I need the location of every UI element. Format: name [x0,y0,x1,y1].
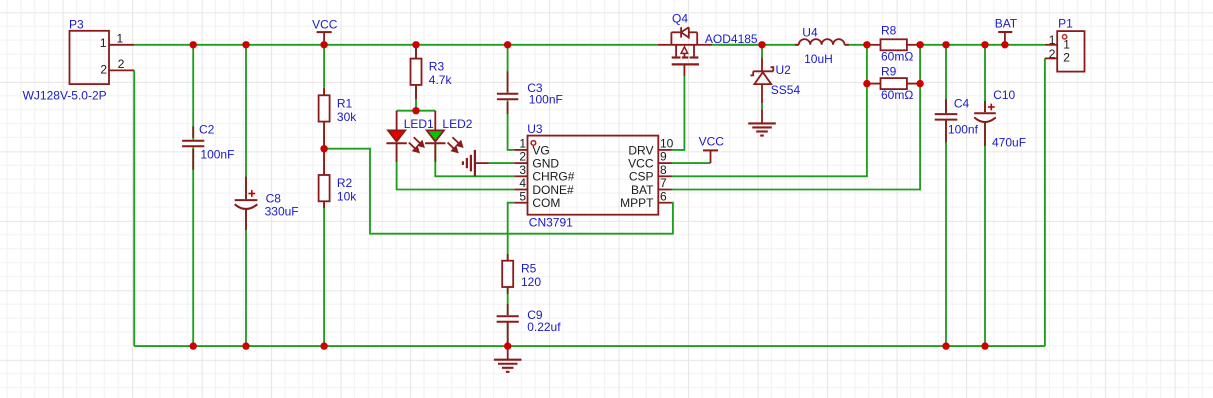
capacitor C8 (polarized) [235,177,299,230]
svg-text:GND: GND [532,157,559,171]
junction dot R3/LED node [412,107,419,114]
resistor R8 [867,24,920,64]
svg-text:LED2: LED2 [442,117,472,131]
wire P3 pin2 drop to bottom bus [133,70,135,346]
svg-text:1: 1 [117,32,124,46]
svg-text:C4: C4 [954,97,970,111]
wire Q4 drain to U2/U4 node [712,44,762,46]
svg-text:9: 9 [660,150,667,164]
svg-text:3: 3 [519,163,526,177]
svg-text:R3: R3 [429,60,445,74]
wire U3 pin 8 CSP to R8/R9 left node [672,45,867,177]
inductor U4 [795,26,849,66]
wire U3 pin 7 BAT to R8/R9 right node [672,45,920,190]
svg-text:C8: C8 [266,192,282,206]
junction dot R1/R2 node [320,145,327,152]
svg-text:VCC: VCC [628,157,654,171]
svg-text:0.22uf: 0.22uf [527,320,561,334]
wire MPPT feedback from R1/R2 node to U3 pin 6 [324,149,673,234]
Q4 arrow [681,47,688,54]
junction dots R9 row [863,80,870,87]
capacitor C9 [497,304,562,346]
capacitor C10 (polarized) [974,88,1026,150]
Q4 body diode [680,27,682,37]
svg-text:1: 1 [1049,33,1056,47]
svg-text:CSP: CSP [629,170,654,184]
resistor R5 [502,254,541,294]
svg-text:U3: U3 [527,122,543,136]
LED LED1 anode lead [396,111,398,131]
svg-text:8: 8 [660,163,667,177]
svg-text:60mΩ: 60mΩ [881,88,913,102]
svg-text:AOD4185: AOD4185 [705,32,758,46]
wire C4 branch [945,45,947,346]
wire U3 pin 5 COM to R5/C9 chain [508,203,515,346]
svg-text:BAT: BAT [995,17,1018,31]
VCC flag at U3 pin 9 [699,135,725,163]
capacitor C3 [497,71,563,114]
wire LED2 cathode to U3 pin 3 CHRG# [435,143,514,176]
svg-text:2: 2 [118,57,125,71]
svg-text:SS54: SS54 [771,83,801,97]
BAT flag [995,17,1018,45]
svg-text:C10: C10 [993,88,1015,102]
wire U3 pin 9 to VCC flag [672,162,711,164]
connector P3 [23,17,135,102]
wire C3 branch / U3 pin 1 VG [508,45,515,150]
svg-text:4.7k: 4.7k [429,73,453,87]
LED LED2 emission arrows [452,137,458,143]
wire R8 right node to P1 [920,44,1045,46]
resistor R3 [411,48,453,99]
svg-text:330uF: 330uF [265,205,299,219]
LED LED1 (red) [388,130,405,141]
svg-text:U4: U4 [802,26,818,40]
junction dots bottom bus [190,342,197,349]
ground flag (rotated) at U3 GND pin [463,150,489,176]
connector P1 [1045,17,1085,72]
svg-text:WJ128V-5.0-2P: WJ128V-5.0-2P [23,89,107,103]
svg-text:U2: U2 [776,63,792,77]
svg-text:10uH: 10uH [804,52,833,66]
wire top bus right section (Q4 drain to inductor) [719,44,799,46]
wire C10 branch [984,45,986,346]
svg-text:R8: R8 [881,24,897,38]
svg-text:4: 4 [519,176,526,190]
svg-text:DONE#: DONE# [532,183,574,197]
resistor R2 [319,149,358,208]
wire C2 branch [192,45,194,346]
svg-text:470uF: 470uF [992,136,1026,150]
svg-text:BAT: BAT [631,183,654,197]
svg-text:R9: R9 [881,65,897,79]
wire R1-R2 branch [323,45,325,346]
capacitor C4 [935,97,979,143]
wire ground flag to U3 pin 2 GND [489,162,515,164]
svg-text:1: 1 [519,137,526,151]
svg-text:100nf: 100nf [948,123,979,137]
junction dots top bus [190,41,197,48]
svg-text:Q4: Q4 [672,11,688,25]
svg-text:5: 5 [519,189,526,203]
LED LED1 emission arrows [414,137,420,143]
svg-text:R5: R5 [521,262,537,276]
svg-text:C2: C2 [199,122,215,136]
svg-text:120: 120 [521,275,541,289]
svg-text:10k: 10k [337,190,357,204]
svg-text:R2: R2 [337,176,353,190]
ground symbol bottom [507,346,509,360]
resistor R1 [319,88,358,149]
wire P1 pin2 drop to bottom bus [1044,58,1046,346]
diode U2 SS54 (Schottky) [750,58,800,103]
transistor Q4 AOD4185 (P-MOSFET) [658,11,758,75]
LED LED2 (green) [427,130,444,141]
VCC flag top [312,18,338,45]
wire LED1 cathode to U3 pin 4 DONE# [397,143,515,189]
svg-text:2: 2 [100,62,107,76]
wire LED anode rail [397,110,436,112]
wire U3 pin 10 DRV to Q4 gate [672,75,685,150]
IC U3 CN3791 [514,122,673,230]
svg-text:2: 2 [1049,47,1056,61]
wire U2 anode down / ground segment [761,45,763,58]
wire inductor to R8 left node [845,44,867,46]
svg-text:100nF: 100nF [529,92,563,106]
ground symbol at U2 [761,110,763,124]
svg-text:7: 7 [660,176,667,190]
svg-text:1: 1 [1063,38,1070,52]
svg-text:COM: COM [532,196,560,210]
svg-text:VCC: VCC [699,135,725,149]
svg-text:VG: VG [532,143,549,157]
svg-text:100nF: 100nF [200,148,234,162]
svg-text:DRV: DRV [628,143,653,157]
svg-text:VCC: VCC [312,18,338,32]
svg-text:60mΩ: 60mΩ [881,50,913,64]
svg-text:30k: 30k [337,110,357,124]
LED LED2 anode lead [434,111,436,131]
svg-text:P3: P3 [69,17,84,31]
wire bottom bus GND net [134,345,1045,347]
svg-text:LED1: LED1 [404,117,434,131]
svg-text:10: 10 [660,137,674,151]
wire R3 branch from top bus [415,45,417,111]
svg-text:1: 1 [100,36,107,50]
wire C8 branch [245,45,247,346]
svg-text:2: 2 [519,150,526,164]
svg-text:CN3791: CN3791 [529,216,573,230]
svg-text:MPPT: MPPT [620,196,654,210]
svg-text:P1: P1 [1058,17,1073,31]
capacitor C2 [182,122,234,169]
wire top bus VCC net [134,44,658,46]
svg-text:R1: R1 [337,96,353,110]
svg-text:CHRG#: CHRG# [532,170,574,184]
resistor R9 [867,65,920,103]
svg-text:2: 2 [1063,51,1070,65]
svg-text:6: 6 [660,189,667,203]
